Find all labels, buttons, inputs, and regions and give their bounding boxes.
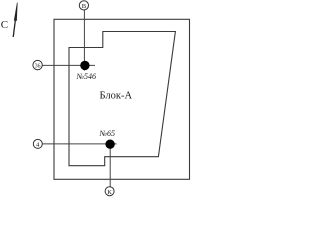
svg-text:С: С [1,19,8,31]
svg-text:К: К [107,189,112,196]
svg-text:36: 36 [35,63,41,69]
svg-text:Блок-А: Блок-А [100,91,133,102]
svg-text:№65: №65 [99,129,116,138]
svg-text:В: В [82,3,87,10]
svg-text:№546: №546 [76,72,97,81]
